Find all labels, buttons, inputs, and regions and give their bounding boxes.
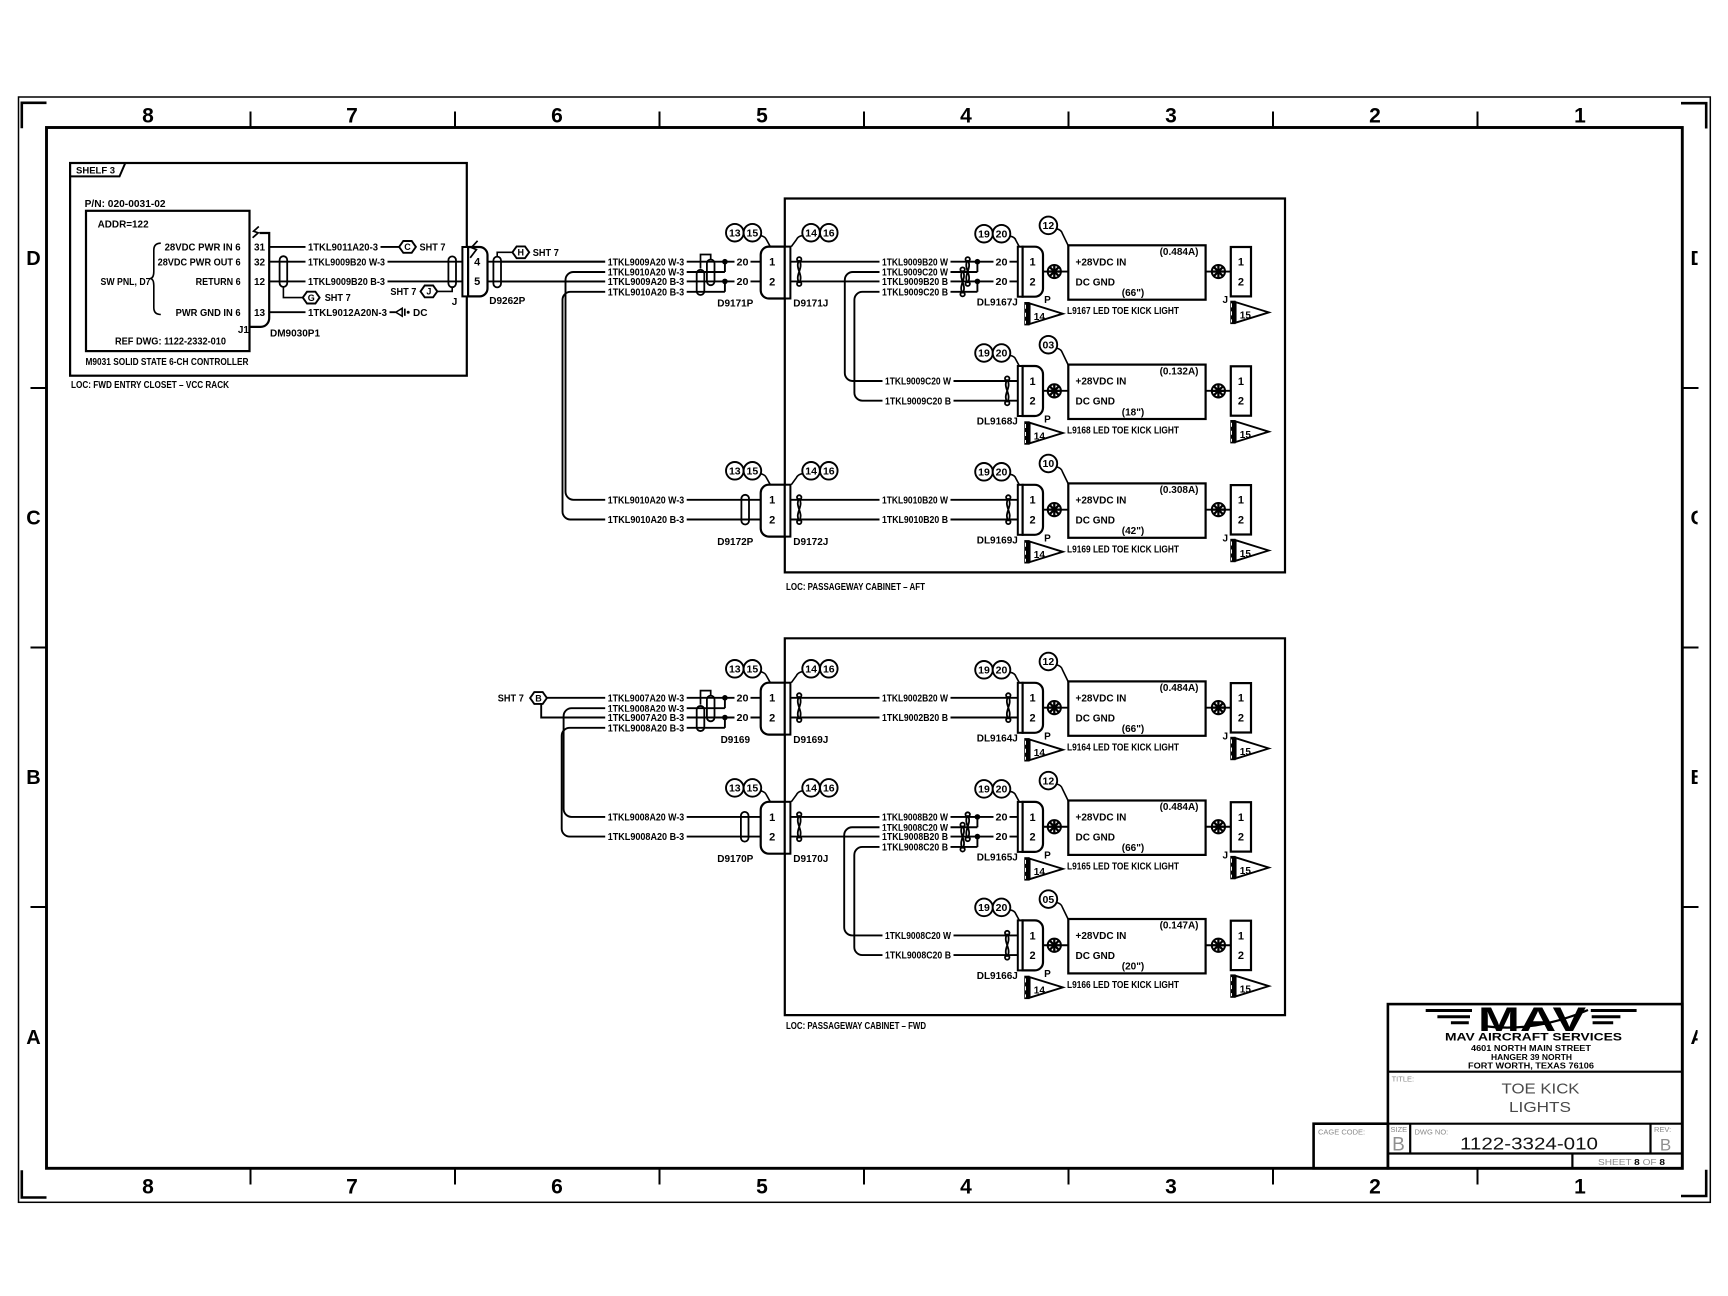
svg-text:14: 14 [805,664,817,676]
output connector pins 1 2 [1231,683,1251,732]
svg-text:LOC: FWD ENTRY CLOSET – VCC RA: LOC: FWD ENTRY CLOSET – VCC RACK [71,380,230,391]
splice ref circles 14 16 at D9171J [802,224,820,242]
svg-text:16: 16 [823,783,835,795]
svg-text:D9262P: D9262P [489,296,525,307]
zone tick marks right [1682,387,1698,389]
wire 1TKL9009B20 B-3 from pin 12 [269,280,462,282]
DC ground stub symbol [396,308,402,316]
svg-text:20: 20 [737,257,749,268]
svg-text:SHT 7: SHT 7 [390,287,416,298]
title block size column divider [1409,1124,1411,1154]
svg-text:14: 14 [1034,986,1046,997]
svg-text:DL9169J: DL9169J [977,535,1018,546]
wire gauge 20 labels [735,692,751,704]
svg-text:1TKL9010A20 B-3: 1TKL9010A20 B-3 [608,515,685,526]
wire gauge 20 labels [994,811,1010,823]
wire label 1TKL9009C20 W [880,266,951,278]
wire 1TKL9010A20 W-3 into D9172P [684,499,761,501]
splice ref circles 14 16 at D9170J [802,779,820,797]
svg-text:13: 13 [254,308,266,319]
wire 1TKL9008A20 W-3 branch down [564,708,725,817]
svg-text:1TKL9002B20 B: 1TKL9002B20 B [882,713,948,724]
wire label 1TKL9008C20 B [883,949,954,961]
svg-text:J1: J1 [238,325,250,336]
splice junction pin2 [724,718,726,728]
shield grommet left of D9262P [448,256,456,287]
leader from circuit ref circle to light [1057,665,1069,682]
wire D9172J pin2 to DL9169J [790,519,1017,521]
wire label 1TKL9010A20 B-3 [605,514,687,526]
svg-text:H: H [518,248,525,258]
svg-text:2: 2 [1238,396,1244,408]
svg-text:(0.308A): (0.308A) [1160,485,1199,496]
svg-text:M9031 SOLID STATE 6-CH CONTROL: M9031 SOLID STATE 6-CH CONTROLLER [86,357,250,368]
svg-text:B: B [26,767,40,789]
wire label 1TKL9007A20 W-3 [605,692,687,704]
connector D9170P (plug half) [761,802,785,854]
svg-text:1: 1 [1574,105,1586,128]
svg-text:15: 15 [1240,747,1252,758]
wire label 1TKL9010A20 W-3 [605,494,687,506]
svg-text:12: 12 [254,277,266,288]
connector D9171J (receptacle half) [785,247,791,299]
svg-text:1: 1 [1574,1176,1586,1199]
shield line to hexagon J [437,287,452,291]
svg-text:2: 2 [1238,712,1244,724]
svg-text:1: 1 [769,257,775,269]
svg-text:J: J [1223,731,1229,742]
svg-text:(0.484A): (0.484A) [1160,247,1199,258]
svg-text:MAV AIRCRAFT SERVICES: MAV AIRCRAFT SERVICES [1445,1032,1622,1044]
shield ground triangle 14 [1024,540,1029,563]
wire 1TKL9009A20 W-3 [500,261,761,263]
title block horizontal divider above sheet strip [1388,1152,1682,1154]
splice ref circles 13 15 at D9170P [726,779,744,797]
wire label 1TKL9009C20 B [883,395,954,407]
svg-text:14: 14 [1034,312,1046,323]
svg-text:3: 3 [1165,1176,1177,1199]
svg-text:6: 6 [551,1176,563,1199]
svg-text:1TKL9010A20 W-3: 1TKL9010A20 W-3 [608,495,685,506]
svg-text:DC: DC [413,308,427,319]
svg-text:DC GND: DC GND [1076,833,1115,844]
svg-text:12: 12 [1043,775,1055,787]
splice junction pin2 [976,837,978,847]
twisted pair bowtie before DL9166J [1006,934,1009,957]
wire label 1TKL9008A20 W-3 [605,811,687,823]
wire D9171J pin2 to DL9167J [790,280,1017,282]
wire label 1TKL9008C20 W [880,821,951,833]
shield grommet before D9172P [741,495,749,525]
wire light to right connector [1206,271,1231,273]
svg-text:19: 19 [978,467,990,479]
wire 1TKL9007A20 W-3 from hexagon B [547,697,761,699]
svg-text:1TKL9008C20 B: 1TKL9008C20 B [882,843,948,854]
wire label 1TKL9002B20 W [880,692,951,704]
splice ref circles 13 15 at D9169 [726,660,744,678]
svg-text:14: 14 [1034,431,1046,442]
svg-text:05: 05 [1043,894,1055,906]
shield line to hexagon H [497,252,512,256]
svg-text:(42"): (42") [1122,526,1145,537]
corner trim bracket top-right [1681,103,1706,128]
svg-text:2: 2 [1238,832,1244,844]
twisted pair bowtie A [966,260,969,283]
connector DL9169J [1018,485,1023,535]
svg-text:13: 13 [729,664,741,676]
svg-text:2: 2 [1030,514,1036,526]
svg-text:B: B [1660,1135,1671,1154]
wire 1TKL9009A20 B-3 [500,280,761,282]
wire L9168 connector to light [1043,390,1068,392]
wire D9172J pin1 to DL9169J [790,499,1017,501]
sheet ref hexagon B [530,692,547,704]
svg-text:1TKL9008C20 W: 1TKL9008C20 W [885,931,951,942]
LED light unit L9166 [1068,919,1205,973]
leader from circle 15 to D9169 [761,672,771,683]
svg-text:2: 2 [1238,514,1244,526]
wire L9169 connector to light [1043,509,1068,511]
svg-text:J: J [1223,850,1229,861]
svg-text:(18"): (18") [1122,407,1145,418]
svg-text:D: D [26,248,40,270]
sheet ref hexagon J [421,286,438,298]
svg-text:1: 1 [1030,376,1036,388]
svg-text:L9165 LED TOE KICK LIGHT: L9165 LED TOE KICK LIGHT [1067,861,1179,872]
splice wheel left of L9167 [1048,265,1061,278]
splice ref circles 19 20 at DL9166J [975,899,993,917]
wire L9166 connector to light [1043,944,1068,946]
wire label 1TKL9008A20 B-3 [605,722,687,734]
wire D9170J pin2 to DL9165J [790,836,1017,838]
svg-text:D9172P: D9172P [717,537,753,548]
connector D9172P (plug half) [761,485,785,537]
leader from circle 20 to DL9166J [1010,910,1019,921]
circuit ref circle 03 [1040,336,1058,354]
svg-text:B: B [535,693,542,703]
splice junction pin1 [724,698,726,708]
LED light unit L9165 [1068,801,1205,855]
splice ref circles 13 15 at D9172P [726,462,744,480]
svg-text:DL9166J: DL9166J [977,971,1018,982]
shield grommet before D9170P [741,812,749,842]
wire label 1TKL9009B20 B [880,276,951,288]
splice junction pin2 [976,281,978,291]
wire 1TKL9012A20N-3 from pin 13 [269,311,395,313]
circuit ref circle 05 [1040,890,1058,908]
svg-text:15: 15 [1240,311,1252,322]
svg-text:(66"): (66") [1122,724,1145,735]
svg-text:C: C [404,242,411,252]
svg-text:20: 20 [737,713,749,724]
wire 1TKL9009C20 B branch down [854,292,977,401]
svg-text:4: 4 [960,105,972,128]
svg-text:19: 19 [978,902,990,914]
shield ground triangle 14 [1024,976,1029,999]
splice junction pin1 [976,817,978,827]
leader from circuit ref circle to light [1057,229,1069,246]
svg-text:LOC: PASSAGEWAY CABINET – AFT: LOC: PASSAGEWAY CABINET – AFT [786,582,925,593]
svg-text:14: 14 [805,466,817,478]
splice ref circles 14 16 at D9172J [802,462,820,480]
svg-text:DC GND: DC GND [1076,951,1115,962]
svg-text:1: 1 [769,812,775,824]
svg-text:03: 03 [1043,339,1055,351]
sheet ref hexagon G [303,292,320,304]
svg-text:DL9164J: DL9164J [977,733,1018,744]
svg-text:13: 13 [729,227,741,239]
svg-text:1: 1 [1238,812,1244,824]
splice ref circles 19 20 at DL9169J [975,463,993,481]
svg-text:14: 14 [1034,867,1046,878]
output connector pins 1 2 [1231,366,1251,415]
wire 1TKL9007A20 B-3 from hexagon B [541,704,761,718]
svg-text:1TKL9010B20 B: 1TKL9010B20 B [882,515,948,526]
splice wheel right of L9164 [1212,701,1225,714]
zone tick marks left [31,387,47,389]
svg-text:DL9168J: DL9168J [977,417,1018,428]
svg-text:SHELF 3: SHELF 3 [76,166,115,177]
cabinet box PASSAGEWAY CABINET AFT [785,199,1285,573]
svg-text:A: A [26,1027,40,1049]
twisted pair bowtie A [966,815,969,838]
svg-text:1TKL9011A20-3: 1TKL9011A20-3 [308,243,378,254]
wire 1TKL9009C20 W branch down [845,272,978,381]
svg-text:20: 20 [996,277,1008,288]
svg-text:1: 1 [769,495,775,507]
svg-text:1: 1 [1238,257,1244,269]
svg-text:5: 5 [756,1176,768,1199]
SHELF 3 tab [70,163,125,176]
wire label 1TKL9010B20 W [880,494,951,506]
svg-text:15: 15 [1240,430,1252,441]
svg-text:B: B [1392,1135,1405,1156]
svg-text:FORT WORTH, TEXAS 76106: FORT WORTH, TEXAS 76106 [1468,1061,1595,1070]
svg-text:SHT 7: SHT 7 [325,293,351,304]
svg-text:2: 2 [1238,950,1244,962]
leader from circle 20 to DL9169J [1010,474,1019,485]
svg-text:19: 19 [978,784,990,796]
wire light to right connector [1206,944,1231,946]
splice junction pin1 [976,262,978,272]
svg-text:14: 14 [1034,748,1046,759]
break squiggle at DM9030P1 [253,227,259,238]
LED light unit L9164 [1068,681,1205,735]
wire D9171J pin1 to DL9167J [790,261,1017,263]
connector D9262P plug half [468,247,487,296]
svg-text:20: 20 [996,467,1008,479]
wire label 1TKL9002B20 B [880,712,951,724]
connector D9169J (receptacle half) [785,683,791,735]
splice wheel left of L9169 [1048,503,1061,516]
svg-text:8: 8 [142,1176,154,1199]
svg-text:1: 1 [1030,812,1036,824]
shield ground triangle 15 [1230,974,1235,997]
svg-text:(0.484A): (0.484A) [1160,683,1199,694]
shield jumper staple [701,691,711,705]
wire 1TKL9009C20 W to DL9168J [882,380,1018,382]
wire L9164 connector to light [1043,707,1068,709]
leader from circle 20 to DL9168J [1010,356,1019,367]
svg-text:L9166 LED TOE KICK LIGHT: L9166 LED TOE KICK LIGHT [1067,980,1179,991]
svg-text:2: 2 [769,276,775,288]
svg-text:REV:: REV: [1654,1125,1671,1134]
svg-text:1TKL9008A20 W-3: 1TKL9008A20 W-3 [608,813,685,824]
svg-text:1TKL9008A20 B-3: 1TKL9008A20 B-3 [608,832,685,843]
leader from circle 14 to D9171J [791,236,802,247]
svg-text:4601 NORTH MAIN STREET: 4601 NORTH MAIN STREET [1471,1044,1591,1053]
svg-text:28VDC PWR OUT 6: 28VDC PWR OUT 6 [158,257,241,268]
connector DM9030P1 bracket [250,233,270,327]
cabinet box PASSAGEWAY CABINET FWD [785,638,1285,1015]
svg-text:1: 1 [1238,376,1244,388]
svg-text:13: 13 [729,783,741,795]
svg-text:13: 13 [729,466,741,478]
connector D9172J (receptacle half) [785,485,791,537]
wire light to right connector [1206,509,1231,511]
leader from circle 14 to D9172J [791,474,802,485]
svg-text:14: 14 [1034,550,1046,561]
svg-text:19: 19 [978,228,990,240]
svg-text:10: 10 [1043,458,1055,470]
svg-text:L9169 LED TOE KICK LIGHT: L9169 LED TOE KICK LIGHT [1067,544,1179,555]
wire light to right connector [1206,390,1231,392]
corner trim bracket bottom-left [22,1170,47,1197]
svg-text:1: 1 [1030,693,1036,705]
svg-text:LIGHTS: LIGHTS [1509,1100,1571,1116]
splice ref circles 19 20 at DL9167J [975,225,993,243]
svg-text:RETURN 6: RETURN 6 [196,277,241,288]
svg-text:15: 15 [747,783,759,795]
connector DL9165J [1018,802,1023,852]
LED light unit L9168 [1068,365,1205,419]
svg-text:P: P [1044,415,1051,426]
output connector pins 1 2 [1231,247,1251,296]
wire label 1TKL9008B20 W [880,811,951,823]
svg-text:D9169J: D9169J [793,735,828,746]
leader from circle 20 to DL9165J [1010,791,1019,802]
wire pin 4 to AFT harness [488,261,608,263]
svg-text:2: 2 [1030,712,1036,724]
twisted pair bowtie B [961,826,964,849]
svg-text:1TKL9009C20 W: 1TKL9009C20 W [885,377,951,388]
circuit ref circle 12 [1040,772,1058,790]
svg-text:2: 2 [769,712,775,724]
svg-text:P: P [1044,969,1051,980]
twisted pair bowtie before DL9168J [1006,380,1009,403]
controller M9031 box [86,211,250,351]
svg-text:D9171J: D9171J [793,299,828,310]
leader from circuit ref circle to light [1057,903,1069,920]
svg-text:1TKL9008A20 B-3: 1TKL9008A20 B-3 [608,723,685,734]
svg-text:J: J [1223,295,1229,306]
leader from circle 14 to D9170J [791,791,802,802]
wire gauge 20 labels [994,256,1010,268]
circuit ref circle 12 [1040,217,1058,235]
splice wheel right of L9167 [1212,265,1225,278]
svg-text:1TKL9010A20 B-3: 1TKL9010A20 B-3 [608,287,685,298]
output connector pins 1 2 [1231,921,1251,970]
svg-text:20: 20 [996,228,1008,240]
wire label 1TKL9010A20 W-3 [605,266,687,278]
svg-text:(0.132A): (0.132A) [1160,366,1199,377]
svg-text:J: J [1223,533,1229,544]
twisted pair bowtie after D9171J [798,260,801,283]
svg-text:14: 14 [805,783,817,795]
shield drop to hexagon G [283,287,303,298]
wire label 1TKL9009C20 B [880,286,951,298]
svg-text:PWR GND IN 6: PWR GND IN 6 [176,308,241,319]
shield grommet right of D9262P [493,257,501,288]
svg-text:2: 2 [1030,276,1036,288]
wire label 1TKL9010A20 B-3 [605,286,687,298]
connector D9171P (plug half) [761,247,785,299]
svg-text:7: 7 [346,1176,358,1199]
svg-text:4: 4 [960,1176,972,1199]
svg-text:P: P [1044,533,1051,544]
svg-text:CAGE CODE:: CAGE CODE: [1318,1128,1365,1137]
svg-text:15: 15 [747,664,759,676]
svg-text:28VDC PWR IN 6: 28VDC PWR IN 6 [165,243,241,254]
svg-text:(66"): (66") [1122,288,1145,299]
svg-text:2: 2 [1369,1176,1381,1199]
svg-text:16: 16 [823,466,835,478]
svg-text:L9167 LED TOE KICK LIGHT: L9167 LED TOE KICK LIGHT [1067,306,1179,317]
svg-text:2: 2 [1238,276,1244,288]
svg-text:DC GND: DC GND [1076,515,1115,526]
svg-text:L9168 LED TOE KICK LIGHT: L9168 LED TOE KICK LIGHT [1067,426,1179,437]
leader from circle 15 to D9171P [761,236,771,247]
svg-text:SHT 7: SHT 7 [420,243,446,254]
connector DL9168J [1018,366,1023,416]
svg-text:1: 1 [1030,495,1036,507]
wire 1TKL9008C20 B to DL9166J [882,954,1018,956]
wire 1TKL9008A20 B-3 into D9170P [684,836,761,838]
svg-text:TOE KICK: TOE KICK [1502,1081,1580,1097]
svg-text:P: P [1044,731,1051,742]
wire D9169J pin2 to DL9164J [790,717,1017,719]
wire 1TKL9011A20-3 from pin 31 [269,246,399,248]
equipment box SHELF 3 [70,163,467,376]
wire 1TKL9009B20 W-3 from pin 32 [269,261,462,263]
wire label 1TKL9008A20 B-3 [605,831,687,843]
leader from circle 15 to D9170P [761,791,771,802]
svg-text:20: 20 [737,693,749,704]
title block horizontal divider under logo [1388,1071,1682,1073]
brace for switch panel rows [150,243,161,314]
cable shield grommet B [697,706,705,731]
svg-text:31: 31 [254,243,266,254]
wire label 1TKL9008B20 B [880,831,951,843]
svg-text:8: 8 [142,105,154,128]
svg-text:P: P [1044,850,1051,861]
svg-text:2: 2 [1369,105,1381,128]
connector DL9167J [1018,247,1023,297]
title block cage code cell [1314,1124,1388,1169]
svg-text:J: J [426,287,431,297]
corner trim bracket bottom-right [1681,1170,1706,1196]
inner border frame [47,128,1683,1169]
splice ref circles 13 15 at D9171P [726,224,744,242]
svg-text:1TKL9012A20N-3: 1TKL9012A20N-3 [308,308,387,319]
wire 1TKL9010A20 B-3 into D9172P [684,519,761,521]
wire light to right connector [1206,826,1231,828]
shield jumper staple [701,255,711,269]
svg-text:D9172J: D9172J [793,537,828,548]
svg-text:2: 2 [769,514,775,526]
svg-text:1122-3324-010: 1122-3324-010 [1460,1134,1598,1154]
shield grommet at DM9030P1 [280,256,288,287]
